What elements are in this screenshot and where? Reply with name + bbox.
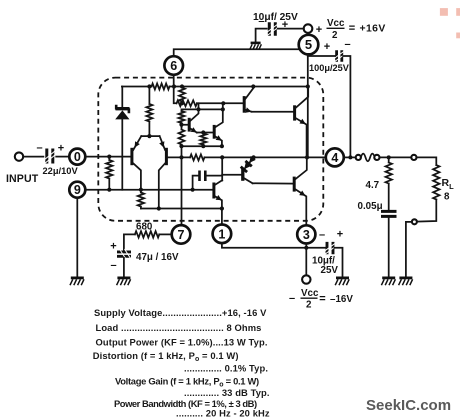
svg-text:Supply Voltage................: Supply Voltage......................+16,… (94, 307, 267, 318)
pin 1 (213, 225, 232, 244)
ground C3 (250, 43, 262, 49)
pin 6 (164, 56, 183, 75)
resistor R3 rail to node A (179, 87, 185, 104)
svg-text:0.05μ: 0.05μ (358, 201, 383, 212)
capacitor C1 22u/10V (electrolytic) (44, 149, 55, 165)
transistor Q9 output top (NPN) (295, 87, 309, 158)
svg-text:+: + (58, 143, 64, 155)
node Q1 collector / feedback (139, 188, 143, 192)
wire Q8 emitter to Q9 base (252, 111, 295, 113)
fuse bead left terminal (356, 155, 361, 160)
node mid rail / diode chain (252, 155, 256, 159)
wire diff emitter header (141, 135, 159, 137)
wire node A to Q8 base (197, 102, 243, 104)
svg-text:INPUT: INPUT (6, 173, 39, 185)
node mirror R top (201, 130, 205, 134)
svg-text:+: + (282, 19, 288, 31)
node B (221, 101, 225, 105)
svg-text:–: – (289, 293, 295, 305)
capacitor C7 10uf/25V bottom (324, 242, 342, 277)
wire input to C1 (23, 156, 43, 158)
ground zobel (381, 278, 395, 285)
resistor R6 bias horizontal (177, 100, 198, 106)
wire pin 3 to node (305, 244, 307, 248)
zener diode D1 (115, 87, 129, 190)
svg-text:9: 9 (74, 183, 81, 197)
svg-text:10μf/ 25V: 10μf/ 25V (253, 12, 298, 23)
resistor R4 diff tail (146, 87, 152, 137)
resistor R1 input shunt (106, 157, 112, 190)
node diff emitters (147, 134, 151, 138)
wire Q3 emitter to Q4 base (197, 132, 214, 134)
wire bias bottom run (182, 145, 222, 147)
svg-text:.............. 0.1% Typ.: .............. 0.1% Typ. (184, 363, 268, 374)
transistor Q3 mirror left (NPN) (182, 109, 199, 132)
wire pin 7 to R13 (159, 233, 171, 235)
load return terminal (412, 219, 417, 224)
node zobel (387, 155, 391, 159)
svg-text:0: 0 (74, 150, 81, 164)
transistor Q6 (NPN) (214, 180, 222, 224)
resistor R9 mirror emitter (200, 133, 206, 147)
wire pin 1 down and right (222, 243, 326, 248)
svg-text:–: – (319, 229, 325, 241)
svg-text:=: = (319, 293, 325, 305)
svg-text:–: – (36, 142, 42, 154)
svg-text:+: + (110, 241, 116, 253)
svg-text:1: 1 (218, 227, 225, 241)
transistor Q1 diff left (PNP) (132, 136, 141, 190)
wire pin 6 up to top link (174, 49, 308, 56)
svg-text:............. 33 dB Typ.: ............. 33 dB Typ. (184, 387, 270, 398)
fuse bead right terminal (374, 155, 379, 160)
wire to zobel node (380, 156, 412, 158)
wire mirror rail (182, 109, 223, 111)
wire Q6 collector vertical (221, 157, 223, 180)
resistor R13 680 (135, 231, 159, 237)
svg-text:+: + (316, 24, 322, 36)
IC package dashed outline (98, 78, 323, 221)
node C2 to feedback rail (191, 188, 195, 192)
node rail/pin6 (172, 84, 176, 88)
node R1 bottom (107, 188, 111, 192)
svg-text:+16V: +16V (360, 24, 386, 35)
wire bottom left run (141, 208, 222, 210)
node Q6 emitter / pin 1 (220, 206, 224, 210)
node pin 3 (304, 246, 308, 250)
svg-text:4.7: 4.7 (366, 180, 380, 191)
wire Q5 collector to Q10 base (253, 182, 294, 184)
svg-text:5: 5 (305, 37, 312, 52)
wire pin 5 down Vcc line (307, 54, 309, 157)
transistor Q2 diff right (PNP) (159, 136, 167, 208)
node bias bottom left (179, 144, 183, 148)
svg-text:–16V: –16V (330, 294, 353, 305)
node R1 top (107, 155, 111, 159)
wire load return to ground (406, 222, 412, 277)
wire terminal to pin 5 (307, 33, 309, 35)
node C4 join (348, 155, 352, 159)
wire pin 9 down (76, 198, 78, 277)
svg-text:2: 2 (332, 30, 338, 41)
svg-text:=: = (349, 23, 355, 35)
wire R13 to C6 (124, 234, 135, 250)
capacitor C5 0.05u (381, 211, 397, 276)
svg-text:47μ / 16V: 47μ / 16V (136, 252, 179, 263)
svg-text:6: 6 (170, 59, 177, 73)
input terminal (15, 152, 23, 160)
svg-text:3: 3 (303, 228, 310, 242)
ground pin 9 (70, 278, 84, 285)
capacitor C4 100u/25V (308, 50, 351, 157)
watermark red marks top right (440, 8, 448, 16)
resistor R10 mid rail (190, 154, 205, 160)
ground C6 (117, 278, 131, 285)
svg-text:Vcc: Vcc (301, 288, 319, 299)
wire RL bottom (417, 200, 436, 222)
transistor Q8 driver (NPN) (244, 87, 253, 113)
svg-text:+: + (337, 229, 343, 241)
svg-text:25V: 25V (321, 265, 339, 276)
svg-text:22μ/10V: 22μ/10V (43, 166, 79, 176)
svg-text:2: 2 (306, 300, 312, 311)
spec table (93, 307, 270, 418)
top rail inside IC (122, 86, 308, 88)
wire Q5 base tee (222, 174, 241, 176)
svg-text:.......... 20 Hz - 20 kHz: .......... 20 Hz - 20 kHz (176, 408, 270, 418)
node Q3 base (179, 123, 183, 127)
pin 5 (299, 35, 319, 55)
transistor Q10 output bottom (NPN) (294, 157, 307, 225)
node mirror rail left (196, 107, 200, 111)
svg-text:–: – (110, 260, 116, 272)
wire pin 6 down into IC (174, 75, 177, 104)
wire stub R6 to mirror rail (198, 103, 200, 109)
resistor R5 Q1 load (138, 190, 144, 209)
svg-text:Vcc: Vcc (327, 18, 345, 29)
capacitor C6 47u/16V (117, 249, 131, 277)
node mirror R bottom (201, 144, 205, 148)
node rail/tail (147, 84, 151, 88)
resistor R7 upper stack (179, 111, 185, 127)
diode chain D2 D3 (241, 156, 256, 172)
label +Vcc/2 = +16V (316, 18, 386, 41)
wire pin 4 out (344, 156, 356, 158)
fuse bead squiggle (361, 154, 375, 162)
capacitor C2 compensation (193, 171, 223, 190)
svg-text:4: 4 (331, 151, 338, 165)
transistor Q5 VBE bias (PNP) (243, 168, 253, 183)
node Q4 emitter (220, 144, 224, 148)
terminal -Vcc/2 (302, 275, 310, 283)
svg-text:Distortion (f = 1 kHz, Po = 0.: Distortion (f = 1 kHz, Po = 0.1 W) (93, 350, 239, 363)
node mirror rail right (221, 107, 225, 111)
svg-text:Load .........................: Load ...................................… (96, 322, 262, 333)
output terminal circle (411, 155, 416, 160)
pin 9 (69, 182, 85, 198)
svg-text:RL: RL (442, 177, 455, 191)
pin 3 (297, 225, 315, 243)
ground C7 (335, 278, 349, 285)
svg-text:–: – (344, 39, 350, 51)
node rail/Q8 collector (251, 84, 255, 88)
resistor R8 lower stack (179, 127, 185, 147)
pin 4 (326, 148, 344, 166)
wire main mid rail (168, 156, 326, 158)
svg-text:8: 8 (444, 192, 450, 203)
pin 7 (172, 225, 191, 244)
terminal Vcc/2 top (304, 24, 313, 33)
pin 7 line (181, 146, 183, 225)
wire pin 0 to Q1 base (85, 156, 130, 158)
node Q2 collector bottom (157, 206, 161, 210)
node mid rail / Q6 collector (220, 155, 224, 159)
ground load return (399, 278, 413, 285)
wire pin 9 feedback rail (85, 189, 213, 191)
wire pin3 node down (305, 248, 307, 276)
svg-text:680: 680 (136, 222, 153, 233)
resistor R11 4.7 (386, 157, 392, 209)
node mid rail / output (305, 155, 309, 159)
transistor Q4 mirror right (NPN) (214, 103, 223, 146)
svg-text:+: + (324, 41, 330, 53)
wire to RL (417, 157, 437, 165)
svg-text:100μ/25V: 100μ/25V (309, 63, 350, 73)
node mid rail / pin7 line (179, 155, 183, 159)
svg-text:Output Power (KF = 1.0%)....13: Output Power (KF = 1.0%)....13 W Typ. (96, 336, 268, 347)
node rail/R3 (180, 84, 184, 88)
resistor R12 load RL (433, 165, 439, 200)
label -Vcc/2 = -16V (289, 288, 353, 311)
svg-text:7: 7 (178, 228, 185, 242)
wire C1 to pin 0 (56, 156, 69, 158)
svg-text:SeekIC.com: SeekIC.com (366, 397, 451, 414)
node rail/Vcc line (306, 84, 310, 88)
pin 0 (69, 149, 85, 165)
node A (180, 101, 184, 105)
resistor R2 on top rail (152, 84, 170, 90)
capacitor C3 10uf/25V top (256, 22, 304, 42)
